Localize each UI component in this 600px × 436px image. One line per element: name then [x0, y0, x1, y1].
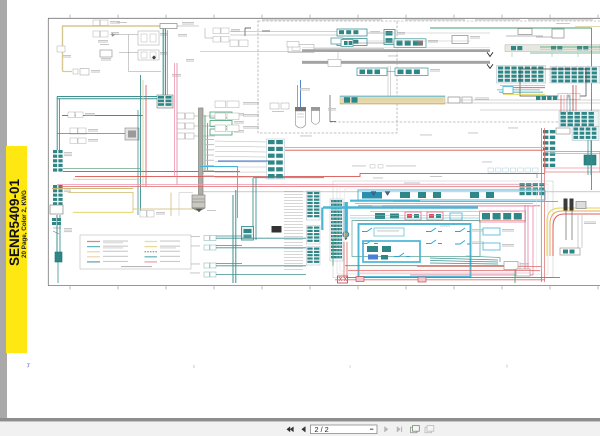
legend right column [145, 241, 181, 263]
yellow bookmark tab [6, 146, 27, 353]
cyan frame E [363, 241, 420, 262]
bottom margin tick marks [70, 286, 598, 289]
arrow into K2 [152, 56, 156, 60]
component teal dark [584, 155, 596, 165]
wire red long upper [75, 174, 545, 177]
capacitor dark pair [564, 199, 587, 211]
wire teal trunk vertical [163, 26, 167, 95]
connector stack CS2 [53, 185, 71, 210]
red mini box 1 [356, 277, 364, 282]
white box WB1 [288, 45, 314, 53]
wire teal drop right [500, 258, 520, 270]
small box B0 [57, 46, 65, 52]
wire bundle multicolor [497, 86, 545, 95]
sensor group S1 [337, 29, 380, 46]
component dark M1 [125, 128, 139, 140]
next page button disabled [385, 427, 389, 432]
switch SW1 [362, 228, 378, 232]
wire teal mid verticals [138, 75, 141, 215]
wire yellow lower [73, 209, 133, 212]
copy icon disabled [425, 426, 434, 433]
ecm row teal boxes [375, 213, 399, 219]
dark junction frame [520, 69, 586, 96]
wire cyan mid [200, 167, 238, 219]
ecm row pink boxes [405, 212, 443, 220]
connector green row2 [210, 121, 244, 127]
wire cyan ecm rows [323, 208, 520, 212]
ecm inner faint frames [340, 187, 541, 271]
top margin tick marks [70, 15, 598, 18]
gray boxes dashed box [270, 103, 289, 112]
injector cylinder 2 [311, 107, 320, 124]
wire red h upper-bottom [348, 270, 540, 272]
wire red long lower [60, 185, 533, 187]
tiny label row mid [352, 165, 416, 169]
connector grid G4 [572, 127, 599, 141]
connector pair P5 [70, 138, 98, 144]
red frame right [545, 152, 600, 173]
wire cyan injector [297, 85, 299, 107]
connector grid G1 [497, 66, 546, 84]
switch SW3 [426, 228, 442, 232]
wire green left riser [332, 240, 334, 266]
toolbar background [0, 422, 600, 436]
dashed enclosure box [258, 21, 397, 133]
wire olive elbow [52, 188, 133, 190]
dashed top text [262, 18, 593, 21]
vertical bundle right [561, 95, 570, 112]
wire green h main [63, 171, 240, 173]
wire gray v-down K1K2 [129, 35, 162, 72]
flag label dark [272, 226, 282, 233]
harness row 1 right [505, 45, 600, 52]
svg-text:SENR5409-01: SENR5409-01 [7, 178, 22, 266]
connector small C0 [100, 50, 112, 61]
wire teal riser pair [233, 190, 236, 283]
wire tan tr [540, 48, 600, 50]
link row 4 [204, 272, 306, 277]
connector right row2 [215, 113, 259, 120]
legend left column [87, 241, 128, 263]
injector cylinder 1 [295, 107, 306, 128]
tiny boxes row mid [488, 168, 538, 178]
gray box lower2 [516, 269, 530, 276]
first page button [287, 427, 294, 432]
wire tan left vertical [142, 80, 144, 186]
wire pink vertical pair [175, 63, 178, 185]
dashed bus line right [330, 121, 560, 123]
connector pair top-mid [213, 28, 240, 42]
outer frame faint 2 [337, 184, 548, 274]
fuse block F1 [73, 69, 100, 76]
dashed top line right extension [397, 20, 600, 22]
white cyan boxes right [483, 228, 514, 250]
ecm row cyan box [450, 213, 462, 220]
wire red pair mid [285, 148, 545, 151]
connector dark end [55, 252, 62, 262]
bus left leads [200, 40, 330, 52]
cable band ribbon [340, 96, 445, 104]
wire red ecm top [358, 205, 540, 207]
outer frame faint 1 [333, 181, 553, 278]
wire teal risers 2 [253, 178, 256, 240]
white boxes row [558, 94, 580, 100]
connector green row3 [210, 129, 244, 135]
wire gray elbows TR [506, 29, 564, 38]
band risers [388, 66, 391, 96]
solenoid motor M2 [192, 195, 216, 212]
connector pair P4 [70, 128, 98, 134]
wire dark enclosure elbow [330, 95, 336, 122]
terminal strip labels [284, 190, 303, 193]
wire teal drop to border [57, 262, 59, 283]
wire green tr2 [540, 46, 600, 48]
toolbar top highlight [0, 421, 600, 423]
wire tan elbow [68, 193, 193, 210]
component G2 [518, 29, 532, 35]
link row 2 [204, 245, 306, 250]
ecm wires row [350, 216, 479, 219]
connector block J2 [157, 95, 173, 108]
connector right row1 [215, 101, 259, 108]
cyan tube [343, 201, 420, 240]
wire green right vertical [591, 28, 593, 190]
mast connector row2 [177, 123, 198, 129]
pink connector stack [480, 211, 526, 222]
junction teal grid [520, 183, 525, 186]
wire tan top right stub [575, 26, 600, 28]
wire teal h 178 [253, 177, 324, 179]
teal row small [536, 96, 540, 100]
wire red left vertical [145, 85, 147, 186]
harness mast [199, 108, 204, 195]
sensor pair S3 [331, 38, 343, 44]
busbar joiner [337, 52, 339, 61]
thick cyan left stub [321, 208, 323, 231]
wire red frame left verticals [344, 242, 347, 278]
wires dashed-box gray [230, 32, 384, 49]
switch SW5 [455, 228, 484, 232]
wire teal h y133 [57, 133, 125, 135]
connector column C1 [543, 130, 548, 133]
wire red bottom 2 [335, 279, 545, 281]
assorted text marks [300, 23, 596, 224]
sensor cluster below bar2 [357, 68, 440, 76]
sheet top border [48, 17, 600, 19]
wire pink long [57, 183, 533, 185]
snapshot icon [411, 426, 420, 433]
ecm header [358, 190, 545, 200]
wire yellow h [73, 178, 140, 180]
wire red ecm row2 [417, 266, 541, 268]
connector block J1 top [160, 22, 199, 29]
link row 3 [204, 263, 306, 268]
stray mark right [506, 365, 508, 368]
wire gray mast to right [203, 191, 600, 193]
pink loop frame [410, 206, 533, 275]
mast right links [203, 116, 215, 136]
relay K2 [138, 50, 168, 60]
switch SW2 [362, 240, 378, 244]
wire red curve [553, 214, 600, 256]
wire green v2 [207, 123, 209, 172]
busbar arrow 2 [487, 64, 493, 68]
mast connector row3 [177, 133, 198, 139]
wire dark verticals cap [566, 211, 572, 240]
wire blue mid [218, 160, 268, 162]
wire magenta verticals [525, 205, 528, 271]
switch SW4 [426, 240, 442, 244]
connector stack CS1 [53, 150, 72, 172]
switch SW6 [455, 241, 484, 245]
busbar 2 [302, 59, 490, 66]
link row 1 [204, 236, 306, 241]
connector column C2 [267, 139, 285, 179]
wire green top [430, 27, 592, 29]
wire red long verticals [542, 128, 545, 282]
wire green tr3 [530, 52, 600, 54]
cyan frame C [359, 224, 471, 277]
band end boxes [448, 97, 489, 103]
mast connector row1 [177, 113, 198, 119]
ecm small text [372, 176, 450, 226]
sensor leads right [367, 33, 490, 41]
connector grid G2 [550, 67, 600, 84]
wire teal h y115 [62, 115, 143, 117]
ecm white box top [374, 228, 404, 236]
sheet left border [47, 18, 49, 285]
wire teal pair left [57, 97, 157, 99]
legend box [80, 235, 191, 269]
connector pair P1 [93, 20, 120, 26]
wire yellow curve [547, 208, 600, 256]
connector green row1 [210, 112, 244, 118]
wire pink h bottom [360, 272, 530, 274]
wire green v1 [204, 115, 206, 172]
wires band to right [445, 100, 600, 110]
stray mark mid2 [349, 365, 351, 368]
wire green h left stub [63, 168, 140, 170]
stray mark mid [193, 365, 195, 368]
enclosure corner line [179, 193, 193, 217]
diode D1 [112, 33, 115, 36]
stray mark left [27, 364, 30, 367]
wire red bottom 1 [348, 277, 560, 279]
wire tan stub to fuse [63, 71, 73, 73]
sensor cluster above bar1 [341, 39, 438, 48]
last page button disabled [397, 427, 402, 432]
legend caption [121, 266, 152, 267]
svg-text:20 Page, Color 2, KWG: 20 Page, Color 2, KWG [21, 190, 28, 258]
wire red ecm row [355, 220, 525, 222]
connector pair P3 [68, 112, 95, 118]
wire gray h1 [110, 34, 138, 36]
gray box lower [504, 262, 529, 270]
prev page button [302, 427, 306, 432]
wire gray h2 [119, 52, 138, 54]
wire tan supply loop [63, 26, 163, 72]
topleft text marks [63, 22, 194, 77]
relay K1 [138, 31, 168, 45]
terminal strip T2 [330, 199, 343, 261]
connector pair P2 [93, 31, 119, 43]
small boxes RM [556, 128, 570, 134]
terminal strip T1 [307, 191, 321, 265]
window bottom edge [0, 418, 600, 422]
wire teal left vertical [57, 97, 59, 151]
wire thin right verticals [578, 215, 582, 248]
wire teal v lower-left [57, 215, 60, 258]
fan text labels [204, 138, 214, 141]
ecm lower teal boxes [367, 246, 391, 260]
wire tan vertical mast [170, 193, 172, 217]
busbar 1 [302, 48, 490, 52]
harness-to-grid risers [505, 53, 588, 67]
wire gray stub [205, 28, 213, 38]
wire pink ecm top [355, 203, 533, 205]
red connector box [338, 276, 348, 283]
right lower boxes [560, 248, 580, 255]
wire orange curve [550, 211, 600, 256]
enclosure corner bracket [245, 28, 270, 36]
component G1 [452, 36, 480, 44]
svg-text:2 / 2: 2 / 2 [315, 425, 329, 434]
teal fan lower [430, 256, 500, 264]
sensor group S2 [384, 30, 405, 45]
wire pink r [545, 167, 600, 169]
wire green lower [345, 266, 515, 283]
connector pair lower [140, 211, 165, 218]
page number field [311, 425, 378, 434]
sheet bottom border [48, 285, 600, 287]
wire red upper right v [573, 85, 576, 111]
gray left window strip [0, 0, 7, 418]
wire cyan ecm top [393, 200, 558, 202]
right edge teal pair [588, 140, 591, 175]
teal frame D [352, 221, 480, 257]
connector grid G3 [559, 111, 599, 127]
wire blue injector [300, 80, 302, 107]
key switch cluster [50, 205, 72, 234]
connector right row3 [215, 125, 259, 132]
teal manifold box [242, 227, 254, 241]
switch SW7 [394, 253, 410, 257]
fanned leads C2 [215, 141, 266, 177]
link row labels [190, 236, 200, 273]
busbar arrow 1 [487, 52, 493, 56]
red mini box 2 [418, 277, 426, 282]
